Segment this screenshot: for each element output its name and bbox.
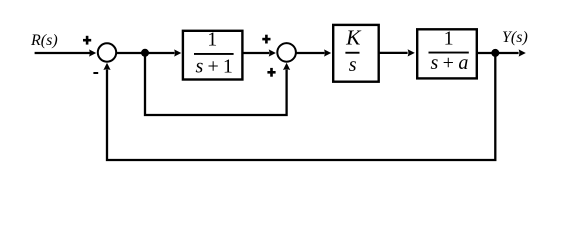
junction dot node B (output pick-off) bbox=[491, 49, 499, 57]
sign label + at summer S1 reference input bbox=[83, 36, 91, 45]
wire: R(s) input into summer S1 with arrowhead bbox=[35, 49, 97, 56]
wire: block G1 output to summer S2 with arrowhead bbox=[242, 49, 276, 56]
svg-text:R(s): R(s) bbox=[30, 32, 58, 49]
svg-text:1: 1 bbox=[444, 28, 454, 50]
sign label + at summer S2 feedforward input bbox=[267, 68, 275, 77]
svg-text:s + 1: s + 1 bbox=[195, 56, 232, 78]
svg-text:s + a: s + a bbox=[431, 52, 469, 74]
svg-text:1: 1 bbox=[207, 29, 217, 51]
svg-text:s: s bbox=[349, 54, 357, 76]
block G2 transfer function K/s bbox=[333, 25, 379, 82]
sign label - at summer S1 feedback input bbox=[93, 72, 98, 74]
svg-text:Y(s): Y(s) bbox=[502, 29, 528, 46]
svg-text:K: K bbox=[345, 26, 362, 50]
wire: summer S2 output to block G2 with arrowhead bbox=[296, 49, 331, 56]
sign label + at summer S2 forward input bbox=[262, 35, 270, 44]
wire: outer feedback from node B down, left and up into summer S1 with arrowhead bbox=[103, 53, 495, 160]
block G1 transfer function 1/(s+1) bbox=[183, 29, 243, 80]
summing junction S1 bbox=[98, 43, 116, 61]
junction dot node A (pick-off after S1) bbox=[141, 49, 149, 57]
summing junction S2 bbox=[277, 43, 296, 62]
wire: block G2 output to block G3 with arrowhead bbox=[379, 49, 415, 56]
wire: block G3 output to Y(s) with arrowhead bbox=[477, 49, 526, 56]
wire: summer S1 output to block G1 with arrowhead bbox=[116, 49, 181, 56]
block G3 transfer function 1/(s+a) bbox=[417, 28, 477, 79]
wire: feedforward from node A down and right into summer S2 with arrowhead bbox=[145, 53, 290, 115]
